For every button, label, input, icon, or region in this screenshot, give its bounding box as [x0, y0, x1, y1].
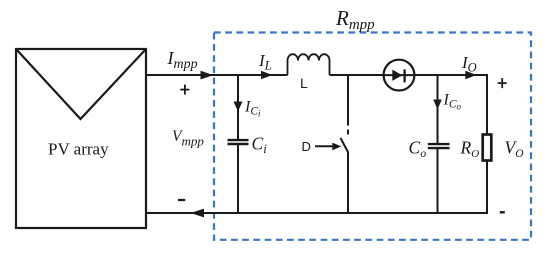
label I_mpp [167, 48, 198, 72]
diode (circled) [384, 60, 415, 91]
label D (gate drive) [302, 139, 311, 154]
label L [300, 75, 308, 91]
label - (output polarity) [500, 211, 505, 213]
PV array block [16, 49, 146, 228]
arrow I_O [465, 71, 476, 79]
label R_O [460, 138, 480, 160]
capacitor Co branch wire (top lead) [437, 75, 439, 143]
load branch wire (bottom lead) [486, 161, 488, 214]
switch lead (bottom) [347, 152, 349, 213]
label + (input polarity) [180, 85, 189, 95]
arrow I_mpp (current into box) [201, 71, 214, 80]
capacitor Co branch wire (bottom lead) [437, 149, 439, 213]
wire: bottom rail [146, 212, 487, 214]
load branch wire (top lead) [486, 74, 488, 134]
label I_O [461, 53, 477, 74]
arrow I_Ci [234, 102, 243, 112]
label - (input polarity) [178, 199, 185, 201]
capacitor Co plates [428, 144, 450, 148]
switch lead (top) [347, 75, 349, 126]
label I_Ci [244, 99, 261, 119]
resistor R_O [483, 135, 492, 161]
label I_Co [443, 92, 462, 112]
arrow I_L [261, 71, 273, 79]
capacitor Ci plates [228, 140, 249, 144]
arrow I_Co [433, 100, 442, 110]
switch arm [341, 138, 349, 153]
label V_mpp [172, 128, 204, 149]
boundary box R_mpp (dashed) [214, 33, 531, 240]
label V_O [505, 138, 525, 160]
wire: top rail PV+ to inductor [146, 74, 288, 76]
label + (output polarity) [498, 78, 507, 88]
inductor L [288, 54, 330, 75]
arrow D to switch [315, 143, 341, 151]
label Ci [252, 134, 268, 156]
label R_mpp [335, 6, 375, 33]
svg-text:L: L [300, 75, 308, 91]
arrow return current (bottom rail, pointing left) [191, 209, 205, 218]
wire: top rail inductor to load corner [330, 74, 488, 76]
switch contact dash [347, 130, 349, 135]
capacitor Ci branch wire (bottom lead) [237, 145, 239, 213]
svg-text:PV array: PV array [48, 140, 109, 159]
label Co [409, 138, 427, 160]
capacitor Ci branch wire (top lead) [237, 75, 239, 139]
label I_L [258, 51, 272, 72]
svg-text:D: D [302, 139, 311, 154]
